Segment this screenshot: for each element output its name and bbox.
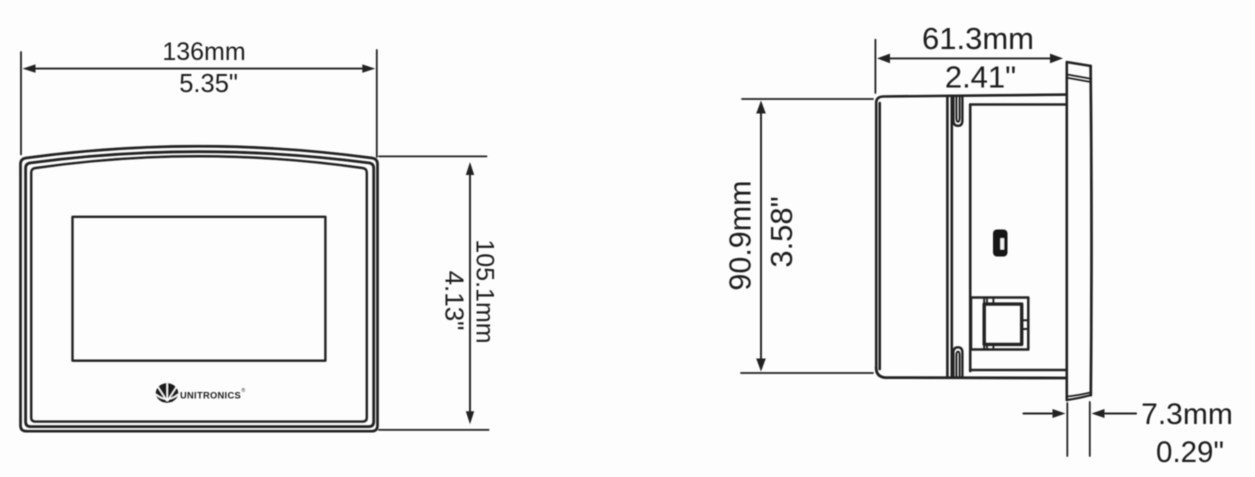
ethernet RJ45 left divider [983, 298, 985, 350]
side left dimension extension bottom [741, 372, 873, 374]
ethernet RJ45 bottom tab [986, 344, 988, 349]
svg-text:90.9mm: 90.9mm [724, 180, 758, 290]
bottom mounting clip inner [956, 352, 959, 377]
logo emblem [156, 383, 178, 403]
svg-text:3.58": 3.58" [764, 196, 799, 267]
top dimension extension line left [20, 52, 22, 155]
front bezel outer outline [21, 146, 378, 431]
right dimension line [469, 174, 471, 412]
side top dim left arrowhead [877, 54, 890, 64]
ethernet RJ45 port outer [971, 298, 1028, 350]
side body mid double line 1 [946, 97, 949, 378]
screen rectangle [73, 217, 326, 361]
7.3mm left arrow line [1023, 413, 1052, 415]
bezel right edge [1089, 66, 1093, 395]
svg-text:0.29": 0.29" [1156, 436, 1224, 469]
bezel top edge [1067, 62, 1090, 66]
bezel bottom edge outer [1067, 395, 1091, 400]
7.3mm right arrow line [1105, 413, 1136, 415]
side left dimension extension top [742, 98, 873, 100]
top dimension extension line right [376, 50, 378, 157]
svg-text:5.35": 5.35" [179, 70, 238, 98]
right dimension top arrowhead [466, 162, 474, 175]
mini-USB connector [993, 230, 1008, 257]
side left dim top arrowhead [756, 101, 766, 114]
top dimension left arrowhead [23, 64, 36, 72]
bezel bottom edge inner [1067, 393, 1091, 397]
front bezel second outline [26, 152, 374, 427]
front section bottom line [970, 369, 1066, 372]
side body left edge outer [876, 95, 1066, 368]
ethernet RJ45 top tab [986, 298, 988, 305]
right dimension extension line top [379, 155, 487, 157]
7.3mm left arrowhead [1053, 409, 1066, 418]
side body mid double line 2 [950, 97, 953, 378]
svg-text:105.1mm: 105.1mm [471, 239, 499, 343]
top dimension line [34, 68, 364, 70]
side body left edge inner [878, 103, 881, 369]
svg-text:61.3mm: 61.3mm [922, 21, 1034, 56]
svg-text:136mm: 136mm [162, 38, 245, 66]
top mounting clip [953, 97, 962, 126]
svg-text:2.41": 2.41" [945, 60, 1016, 95]
ethernet RJ45 right notch [1022, 320, 1029, 329]
svg-text:7.3mm: 7.3mm [1141, 398, 1233, 431]
7.3mm dimension extension line right [1089, 402, 1091, 456]
side body bottom edge [876, 368, 1066, 378]
right dimension extension line bottom [379, 429, 489, 431]
svg-text:®: ® [242, 387, 246, 394]
ethernet RJ45 inner socket [984, 304, 1022, 344]
svg-text:4.13": 4.13" [440, 271, 470, 331]
front section left edge [969, 105, 972, 372]
side top dim right arrowhead [1050, 54, 1063, 64]
side left dimension line [760, 112, 762, 360]
top mounting clip inner [956, 97, 959, 122]
7.3mm dimension extension line left [1066, 403, 1068, 456]
bezel top band line 1 [1067, 75, 1091, 79]
7.3mm right arrowhead [1092, 409, 1105, 418]
bezel left edge [1066, 62, 1069, 400]
side left dim bottom arrowhead [756, 359, 766, 372]
bottom mounting clip [953, 347, 962, 376]
front face inner line [31, 156, 367, 421]
front section top line [970, 103, 1066, 106]
svg-text:UNITRONICS: UNITRONICS [180, 390, 241, 400]
top dimension right arrowhead [362, 64, 375, 72]
side top dimension line [889, 57, 1051, 59]
bezel top band line 2 [1067, 78, 1091, 82]
side top dimension extension line [874, 40, 876, 93]
right dimension bottom arrowhead [466, 411, 474, 424]
